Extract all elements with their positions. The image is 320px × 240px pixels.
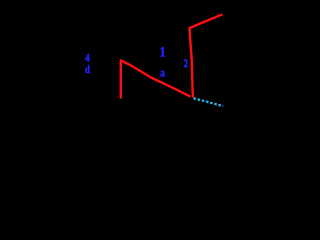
svg-text:2: 2: [184, 58, 188, 71]
svg-text:1: 1: [160, 43, 166, 59]
svg-text:d: d: [85, 64, 90, 76]
svg-text:a: a: [160, 66, 165, 79]
